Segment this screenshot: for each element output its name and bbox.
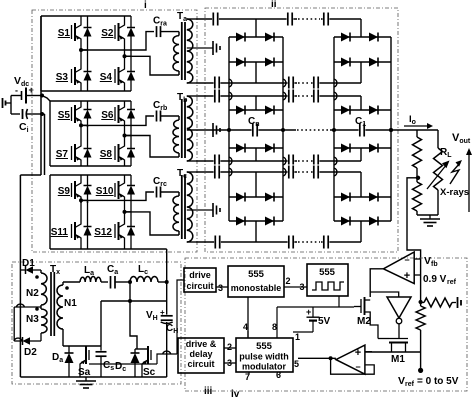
inductor La bbox=[80, 276, 101, 282]
svg-text:drive &: drive & bbox=[186, 339, 217, 349]
svg-text:1: 1 bbox=[295, 332, 300, 342]
op-amp U1 bbox=[383, 252, 414, 284]
svg-text:+: + bbox=[306, 307, 311, 317]
rail 3 cap b bbox=[288, 89, 295, 104]
transformer Tc core bbox=[181, 175, 183, 239]
left col diode row 3 d1 bbox=[236, 106, 245, 115]
diode D1 bbox=[20, 269, 25, 271]
svg-text:555: 555 bbox=[319, 267, 336, 278]
rail 1 cap b bbox=[287, 12, 294, 27]
wire mono to pwm pin4 bbox=[247, 297, 249, 338]
left col diode row 2 d2 bbox=[265, 58, 274, 67]
svg-text:iii: iii bbox=[204, 386, 213, 397]
left col diode row 1 d1 bbox=[236, 33, 245, 42]
right col diode row 5 d2 bbox=[369, 193, 378, 202]
ref terminal bbox=[457, 297, 459, 308]
diode of S7 bbox=[87, 140, 89, 149]
svg-text:S5: S5 bbox=[58, 110, 71, 121]
wire CH down bbox=[166, 322, 168, 377]
bridge 1 top rail bbox=[41, 15, 131, 17]
transistor M2 bbox=[360, 299, 362, 313]
rail 6 cap b bbox=[288, 165, 295, 180]
svg-text:S3: S3 bbox=[56, 72, 69, 83]
winding N1 bbox=[62, 282, 64, 285]
right col diode row 4 d1 bbox=[341, 144, 350, 153]
transformer Ta secondary bbox=[187, 19, 193, 83]
rail 3 dots bbox=[297, 95, 311, 97]
diode of S6 bbox=[130, 101, 132, 110]
feedback bus bbox=[420, 302, 422, 306]
wire tank Cra top bbox=[81, 32, 154, 50]
svg-text:4: 4 bbox=[243, 322, 248, 332]
left col diode row 1 wire bbox=[229, 36, 283, 38]
capacitor Ca bbox=[101, 281, 108, 283]
wire tank Crb top bbox=[81, 116, 154, 125]
rail 1 cap a bbox=[212, 12, 219, 27]
node Lc out bbox=[165, 280, 169, 284]
svg-text:555: 555 bbox=[256, 341, 273, 352]
transformer Ta core bbox=[181, 22, 183, 80]
reference resistor horizontal bbox=[424, 298, 452, 307]
capacitor C1 bbox=[359, 123, 366, 138]
N1 dot bbox=[65, 286, 69, 290]
right column right edge bbox=[390, 37, 392, 221]
diode Dc bbox=[131, 352, 140, 354]
svg-text:iv: iv bbox=[231, 389, 240, 399]
svg-text:X-rays: X-rays bbox=[440, 187, 469, 198]
svg-text:circuit: circuit bbox=[186, 281, 213, 291]
transformer Tc secondary bbox=[187, 172, 193, 242]
bridge 2 bottom rail bbox=[50, 165, 131, 167]
right col diode row 1 d2 bbox=[369, 33, 378, 42]
wire output down bbox=[437, 130, 439, 148]
node leg A bridge 2 bbox=[79, 123, 83, 127]
svg-text:drive: drive bbox=[189, 270, 211, 280]
right col diode row 6 d1 bbox=[341, 217, 350, 226]
rail 2 cap b bbox=[288, 76, 295, 91]
node divider tap bbox=[416, 176, 420, 180]
node output rail bbox=[389, 128, 393, 132]
wire - bus bbox=[44, 114, 46, 175]
wire VH branch down bbox=[166, 282, 168, 315]
wire dd-pwm a bbox=[224, 347, 236, 349]
wire Sc drain jog bbox=[130, 301, 137, 349]
svg-text:2: 2 bbox=[286, 276, 291, 286]
left edge hops y161 bbox=[229, 157, 232, 165]
node leg A bridge 1 bbox=[79, 48, 83, 52]
winding N2 bbox=[40, 270, 42, 273]
svg-text:M1: M1 bbox=[391, 354, 405, 365]
M1 source rail bbox=[365, 351, 421, 353]
svg-text:S12: S12 bbox=[94, 227, 112, 238]
rail 5 cap a bbox=[214, 154, 221, 169]
svg-text:+: + bbox=[404, 270, 410, 282]
right col diode row 3 d2 bbox=[369, 106, 378, 115]
svg-text:N2: N2 bbox=[26, 288, 39, 299]
node Ca-Lc bbox=[128, 280, 132, 284]
svg-text:-: - bbox=[15, 86, 18, 96]
wire tank Crc top bbox=[81, 192, 154, 200]
right col diode row 4 wire bbox=[334, 147, 391, 149]
svg-text:S6: S6 bbox=[101, 110, 114, 121]
divider resistor top bbox=[416, 130, 418, 137]
svg-text:N1: N1 bbox=[64, 298, 77, 309]
section iii border box bbox=[12, 262, 181, 384]
left col diode row 5 d2 bbox=[265, 193, 274, 202]
left col diode row 3 wire bbox=[229, 109, 283, 111]
wire bus jog to bridge2 bbox=[42, 96, 50, 102]
wire inverter to M1 bbox=[398, 324, 400, 339]
igbt S4 bbox=[114, 69, 116, 83]
node leg B bridge 3 bbox=[123, 210, 127, 214]
inductor Lc bbox=[130, 277, 158, 283]
wire divider bottom bbox=[417, 214, 438, 216]
svg-text:8: 8 bbox=[272, 322, 277, 332]
left col diode row 2 wire bbox=[229, 61, 283, 63]
input terminal bbox=[2, 98, 4, 108]
igbt S10 bbox=[114, 183, 116, 197]
node mid rail bbox=[128, 299, 132, 303]
svg-text:5V: 5V bbox=[318, 316, 331, 327]
capacitor Cra bbox=[156, 26, 158, 37]
bridge 1 bottom rail bbox=[41, 90, 131, 92]
svg-text:3: 3 bbox=[218, 283, 223, 293]
capacitor Ci bbox=[11, 113, 20, 115]
svg-text:ref: ref bbox=[447, 279, 457, 286]
bridge 1 left edge bbox=[40, 16, 42, 91]
wire Sa drain bbox=[100, 301, 102, 346]
left edge hops y83 bbox=[229, 79, 232, 87]
rail 3 bbox=[196, 95, 361, 97]
right col diode row 2 wire bbox=[334, 61, 391, 63]
Sa cell top rail bbox=[63, 345, 101, 347]
svg-text:delay: delay bbox=[189, 349, 212, 359]
right edge hop y172 bbox=[334, 168, 337, 176]
diode of S12 bbox=[130, 218, 132, 227]
rail 3 cap a bbox=[214, 89, 221, 104]
U2 feedback loop bbox=[331, 358, 375, 374]
svg-text:S2: S2 bbox=[101, 28, 114, 39]
right edge hop y96 bbox=[334, 92, 337, 100]
node Vdc- bbox=[40, 112, 44, 116]
wire drive circuit input bbox=[177, 280, 184, 354]
ground iii bbox=[85, 377, 87, 381]
capacitor Crb bbox=[156, 111, 158, 122]
right col diode row 4 d2 bbox=[369, 144, 378, 153]
left col stub R3-B bbox=[255, 96, 257, 110]
right col diode row 6 wire bbox=[334, 220, 391, 222]
rail 6 bbox=[196, 171, 361, 173]
rail 5 cap c bbox=[313, 154, 320, 169]
rail 4 ground bbox=[212, 123, 214, 137]
igbt S11 bbox=[71, 224, 73, 238]
wire dd-pwm b bbox=[224, 362, 236, 364]
rail 6 cap c bbox=[313, 165, 320, 180]
wire tank rb bottom bbox=[125, 136, 180, 158]
sq555 box bbox=[307, 264, 348, 296]
wire bridge3 to VH branch bbox=[131, 248, 167, 250]
diode of S4 bbox=[130, 63, 132, 72]
rail 1 top bbox=[196, 18, 361, 20]
wire N1 top bbox=[63, 281, 80, 283]
left column right edge bbox=[282, 37, 284, 221]
diode of S1 bbox=[87, 19, 89, 28]
svg-text:S9: S9 bbox=[58, 186, 71, 197]
divider resistor bottom bbox=[416, 178, 418, 182]
left col diode row 3 d2 bbox=[265, 106, 274, 115]
wire 5V rail bbox=[277, 306, 354, 308]
transformer Tb core bbox=[181, 99, 183, 158]
section ii border box bbox=[205, 8, 398, 252]
svg-text:N3: N3 bbox=[26, 314, 39, 325]
node rail4 x334 bbox=[332, 128, 336, 132]
svg-text:6: 6 bbox=[276, 370, 281, 380]
right col diode row 3 d1 bbox=[341, 106, 350, 115]
right col diode row 5 d1 bbox=[341, 193, 350, 202]
node leg B bridge 1 bbox=[123, 54, 127, 58]
rail 4 mid output bbox=[187, 129, 438, 131]
right col diode row 1 wire bbox=[334, 36, 391, 38]
igbt Sa bbox=[85, 346, 87, 364]
left col diode row 4 d1 bbox=[236, 144, 245, 153]
wire Ca node down bbox=[129, 282, 131, 301]
wire + bus bbox=[40, 16, 42, 175]
pwm box bbox=[236, 338, 293, 372]
bridge 3 left edge bbox=[49, 175, 51, 249]
rail 2 dots bbox=[297, 82, 311, 84]
left col diode row 6 d2 bbox=[265, 217, 274, 226]
right col diode row 2 d2 bbox=[369, 58, 378, 67]
right edge hop y161 bbox=[334, 157, 337, 165]
svg-text:3: 3 bbox=[300, 282, 305, 292]
reference resistor vertical bbox=[416, 306, 425, 330]
svg-text:S4: S4 bbox=[100, 72, 113, 83]
left col diode row 6 wire bbox=[229, 220, 283, 222]
node rail4 x229 bbox=[227, 128, 231, 132]
svg-text:S8: S8 bbox=[100, 149, 113, 160]
wire mid rail bbox=[101, 300, 167, 302]
left column left edge bbox=[228, 37, 230, 221]
U2 plus wire bbox=[365, 351, 372, 353]
svg-text:S7: S7 bbox=[56, 149, 69, 160]
left col stub A-R2 bbox=[255, 62, 257, 83]
igbt S1 bbox=[71, 25, 73, 39]
transformer Tc primary bbox=[178, 192, 180, 196]
battery Vdc bbox=[11, 95, 22, 97]
diode of S10 bbox=[130, 177, 132, 186]
op-amp U2 bbox=[336, 345, 365, 374]
left col diode row 6 d1 bbox=[236, 217, 245, 226]
svg-text:5: 5 bbox=[294, 359, 299, 369]
wire Lc out bbox=[158, 281, 167, 283]
left col stub top bbox=[255, 19, 257, 37]
load resistor RL bbox=[434, 148, 443, 190]
svg-text:S11: S11 bbox=[51, 227, 69, 238]
rail 7 cap c bbox=[323, 235, 330, 250]
wire N1 bottom bbox=[62, 329, 64, 346]
wire tap to feedback bbox=[407, 178, 421, 302]
svg-text:+: + bbox=[160, 308, 165, 317]
rail 7 cap a bbox=[214, 235, 221, 250]
left col diode row 2 d1 bbox=[236, 58, 245, 67]
capacitor Cs bbox=[100, 346, 102, 351]
node rail4 x391 bbox=[389, 128, 393, 132]
rail 2 cap c bbox=[313, 76, 320, 91]
battery +5V bbox=[312, 307, 314, 317]
rail 5 cap b bbox=[288, 154, 295, 169]
drive delay box bbox=[178, 338, 224, 373]
Ta center tap ground bbox=[187, 47, 213, 49]
bridge 2 left edge bbox=[49, 101, 51, 166]
svg-text:S1: S1 bbox=[58, 28, 71, 39]
ground output bbox=[429, 215, 431, 219]
transformer Ta primary bbox=[178, 32, 180, 36]
igbt S6 bbox=[114, 107, 116, 121]
U2 output wire bbox=[298, 357, 336, 359]
rail 6 dots bbox=[297, 171, 311, 173]
capacitor Cn bbox=[252, 123, 259, 138]
rail 7 bottom bbox=[196, 241, 361, 243]
igbt S9 bbox=[71, 183, 73, 197]
svg-text:D2: D2 bbox=[24, 347, 37, 358]
right col stub top bbox=[360, 19, 362, 37]
svg-text:pulse width: pulse width bbox=[239, 352, 289, 362]
transformer Tx core bbox=[50, 272, 52, 336]
winding N3 bbox=[41, 309, 47, 333]
wire tank rc bottom bbox=[125, 212, 180, 235]
rail 7 cap b bbox=[288, 235, 295, 250]
rail 2 bbox=[196, 82, 361, 84]
X-rays squiggle bbox=[450, 163, 460, 184]
left edge hops y172 bbox=[229, 168, 232, 176]
rail 4 dots bbox=[296, 129, 330, 131]
wire to D2 bbox=[13, 307, 15, 341]
N2 dot bbox=[35, 275, 39, 279]
monostable pin2 wire bbox=[284, 286, 307, 288]
Sc cell top rail bbox=[135, 348, 148, 350]
left col diode row 5 wire bbox=[229, 196, 283, 198]
left col stub B-R5 bbox=[255, 148, 257, 161]
node Vref bbox=[418, 368, 423, 373]
section iv border box bbox=[185, 258, 467, 391]
wire bus to D1 leg bbox=[19, 175, 21, 377]
right col diode row 6 d2 bbox=[369, 217, 378, 226]
transformer Tb secondary bbox=[187, 96, 193, 161]
svg-text:M2: M2 bbox=[357, 316, 371, 327]
svg-text:2: 2 bbox=[227, 342, 232, 352]
right col stub B-R5 bbox=[360, 148, 362, 161]
left col diode row 5 d1 bbox=[236, 193, 245, 202]
transformer Tb primary bbox=[178, 116, 180, 120]
right col diode row 2 d1 bbox=[341, 58, 350, 67]
diode of S11 bbox=[87, 218, 89, 227]
bottom rail iii bbox=[20, 376, 166, 378]
rail 5 dots bbox=[297, 160, 311, 162]
wire input loop bbox=[10, 96, 12, 115]
node leg B bridge 2 bbox=[123, 134, 127, 138]
Tc center tap ground bbox=[187, 209, 213, 211]
sq555 wave glyph bbox=[312, 282, 344, 290]
Vout arrow bbox=[468, 152, 470, 212]
svg-text:−: − bbox=[404, 255, 409, 265]
left col diode row 1 d2 bbox=[265, 33, 274, 42]
svg-text:S10: S10 bbox=[96, 186, 114, 197]
svg-text:−: − bbox=[355, 362, 360, 372]
inverter U3 bbox=[387, 297, 411, 318]
svg-text:i: i bbox=[144, 0, 147, 11]
rail 2 cap a bbox=[214, 76, 221, 91]
right col diode row 1 d1 bbox=[341, 33, 350, 42]
diode of S3 bbox=[87, 63, 89, 72]
wire to inverter bbox=[370, 292, 399, 297]
monostable box bbox=[228, 266, 284, 297]
svg-text:555: 555 bbox=[248, 269, 265, 280]
capacitor Crc bbox=[156, 187, 158, 198]
U1 plus wire bbox=[414, 274, 420, 276]
rail 5 bbox=[196, 160, 361, 162]
rail 6 cap a bbox=[214, 165, 221, 180]
gate wire Sa Sc bbox=[89, 363, 151, 365]
drive circuit box bbox=[184, 268, 216, 292]
left col diode row 4 wire bbox=[229, 147, 283, 149]
svg-text:= 0 to 5V: = 0 to 5V bbox=[417, 376, 459, 387]
right col diode row 5 wire bbox=[334, 196, 391, 198]
left col diode row 4 d2 bbox=[265, 144, 274, 153]
section i border box bbox=[32, 10, 197, 252]
svg-text:D1: D1 bbox=[22, 258, 35, 269]
node rail4 x283 bbox=[281, 128, 285, 132]
left col stub R6-C bbox=[255, 172, 257, 197]
right col stub A-R2 bbox=[360, 62, 362, 83]
igbt S2 bbox=[114, 25, 116, 39]
svg-text:monostable: monostable bbox=[231, 283, 282, 293]
right col diode row 3 wire bbox=[334, 109, 391, 111]
diode of S5 bbox=[87, 101, 89, 110]
left edge hops y96 bbox=[229, 92, 232, 100]
rail 1 dots bbox=[297, 18, 321, 20]
right edge hop y83 bbox=[334, 79, 337, 87]
bridge 3 bottom rail bbox=[50, 248, 131, 250]
rail 3 cap c bbox=[313, 89, 320, 104]
left col stub C-R7 bbox=[255, 221, 257, 242]
igbt S3 bbox=[71, 69, 73, 83]
bridge 3 top rail bbox=[50, 174, 131, 176]
diode Da bbox=[65, 352, 74, 354]
bridge 2 top rail bbox=[50, 100, 131, 102]
igbt S7 bbox=[71, 146, 73, 160]
svg-text:ii: ii bbox=[271, 0, 277, 10]
right column left edge bbox=[333, 37, 335, 221]
svg-text:0.9 V: 0.9 V bbox=[423, 274, 447, 285]
right col stub C-R7 bbox=[360, 221, 362, 242]
N3 dot bbox=[35, 307, 39, 311]
diode of S8 bbox=[130, 140, 132, 149]
igbt S8 bbox=[114, 146, 116, 160]
wire tank ra bottom bbox=[125, 56, 180, 75]
node fb divider bbox=[419, 300, 423, 304]
igbt S5 bbox=[71, 107, 73, 121]
RL arrow bbox=[427, 164, 447, 189]
U1 minus wire bbox=[414, 258, 420, 260]
right col stub R6-C bbox=[360, 172, 362, 197]
rail 7 dots bbox=[297, 241, 321, 243]
svg-text:circuit: circuit bbox=[187, 359, 214, 369]
rail 1 cap c bbox=[323, 12, 330, 27]
node Vdc+ bbox=[40, 94, 44, 98]
wire battery to pwm pin1 bbox=[293, 331, 313, 333]
wire U1 output bbox=[370, 269, 383, 297]
svg-text:+: + bbox=[355, 347, 361, 359]
